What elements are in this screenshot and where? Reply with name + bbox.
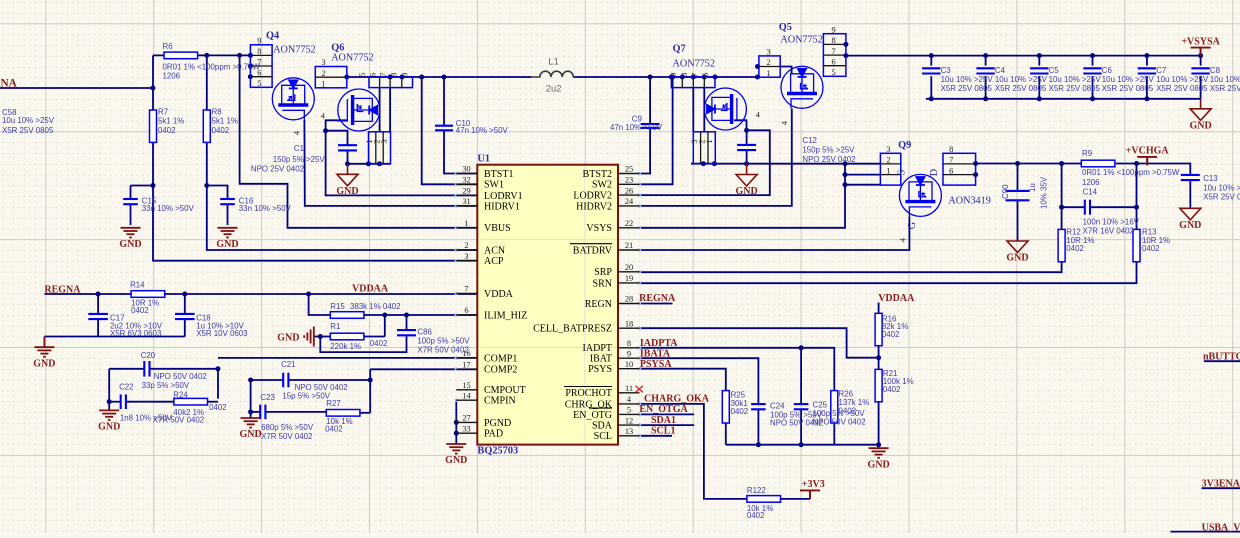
svg-text:GND: GND (1179, 220, 1201, 231)
svg-text:3: 3 (380, 139, 389, 143)
wire SDA1 stub pin 12 (640, 424, 695, 426)
wire gnd bars stub (314, 336, 321, 338)
svg-text:40k2 1%: 40k2 1% (173, 408, 204, 417)
wire C7 bottom stub (1146, 76, 1148, 99)
svg-text:5: 5 (358, 73, 367, 77)
pin 6 ILIM_HIZ (456, 314, 477, 316)
pin box Q5 pins 9-5 (823, 34, 846, 77)
svg-text:12: 12 (625, 416, 633, 425)
junction (1090, 96, 1095, 101)
svg-text:HIDRV2: HIDRV2 (576, 201, 612, 212)
svg-text:SW2: SW2 (592, 180, 612, 191)
svg-text:11: 11 (625, 384, 633, 393)
svg-text:GND: GND (119, 239, 141, 250)
svg-text:HIDRV1: HIDRV1 (484, 201, 520, 212)
wire C86 top (406, 315, 408, 330)
svg-text:S: S (897, 169, 908, 175)
svg-text:CMPIN: CMPIN (484, 396, 516, 407)
wire C12 top (746, 130, 748, 145)
wire R27 right stub (358, 412, 370, 414)
pin 20 SRP (618, 271, 640, 273)
svg-text:26: 26 (625, 186, 633, 195)
svg-text:REGNA: REGNA (44, 284, 81, 295)
pin box Q4 pins 9-5 (250, 45, 272, 88)
wire source rail Q6 (348, 163, 391, 165)
wire C17 C18 gnd rail (44, 336, 184, 338)
wire CELL_BATPRESZ pin 18 (640, 328, 879, 358)
wire REGNA to R14 (44, 293, 131, 295)
wire C15 to GND (130, 204, 132, 225)
wire C6 top stub (1092, 56, 1094, 66)
junction (248, 409, 253, 414)
wire R12 column (1061, 164, 1063, 230)
svg-text:7: 7 (379, 73, 388, 77)
junction (712, 161, 717, 166)
wire SRN pin 19 to R13 (640, 262, 1137, 284)
svg-text:8: 8 (257, 47, 261, 56)
transistor Q4 (272, 78, 314, 120)
wire PSYSA pin 10 to R25 (640, 369, 726, 391)
resistor R122 (747, 496, 781, 503)
svg-text:8: 8 (832, 36, 836, 45)
wire gnd stub right (878, 445, 880, 449)
junction (1015, 161, 1020, 166)
svg-text:C9: C9 (632, 114, 643, 123)
svg-text:X5R 25V 0805: X5R 25V 0805 (1156, 84, 1208, 93)
wire SW1 to pin 32 (422, 77, 478, 184)
svg-text:19: 19 (625, 274, 633, 283)
svg-text:BATDRV: BATDRV (573, 245, 613, 256)
svg-text:SW1: SW1 (484, 180, 504, 191)
junction (404, 313, 409, 318)
svg-text:2: 2 (767, 58, 771, 67)
pin 32 SW1 (456, 183, 477, 185)
wire SW1 rail to L1 (347, 76, 532, 78)
junction (799, 345, 804, 350)
svg-text:X5R 25V 0805: X5R 25V 0805 (1049, 84, 1101, 93)
svg-text:6: 6 (701, 73, 710, 77)
svg-text:3: 3 (767, 48, 771, 57)
wire R14 to VDDA pin 7 (165, 293, 478, 295)
junction (382, 313, 387, 318)
wire C3 bottom stub (930, 76, 932, 99)
svg-text:1: 1 (705, 139, 714, 143)
svg-text:150p 5% >25V: 150p 5% >25V (273, 155, 326, 164)
svg-text:100p 5% >50V: 100p 5% >50V (417, 336, 470, 345)
svg-text:R7: R7 (158, 108, 168, 117)
svg-text:X5R 10V 0603: X5R 10V 0603 (196, 329, 248, 338)
svg-text:SRN: SRN (593, 278, 612, 289)
wire R6 left / R7 top (152, 55, 154, 110)
wire R1 left stub (320, 336, 330, 338)
wire C20 right to R24 node (150, 369, 218, 399)
junction (345, 161, 350, 166)
capacitor C25 (794, 404, 809, 409)
junction (216, 366, 221, 371)
svg-text:1206: 1206 (1082, 178, 1100, 187)
svg-text:GND: GND (98, 422, 120, 433)
svg-text:R122: R122 (747, 486, 766, 495)
junction (744, 128, 749, 133)
junction (755, 64, 760, 69)
wire R8 bottom to ACN pin 2 (207, 142, 478, 250)
wire Q5 box link (780, 67, 791, 74)
wire VBUS to pin 1 (240, 55, 478, 227)
svg-text:C13: C13 (1203, 174, 1218, 183)
svg-text:R15: R15 (330, 302, 345, 311)
wire CMPIN PGND PAD gnd column (455, 400, 457, 444)
junction (248, 53, 253, 58)
wire R8 top (206, 55, 208, 110)
svg-text:ACN: ACN (484, 245, 505, 256)
pin 24 HIDRV2 (618, 205, 640, 207)
svg-text:33p 5% >50V: 33p 5% >50V (142, 381, 190, 390)
svg-text:AON7752: AON7752 (673, 58, 715, 69)
capacitor C23 (260, 405, 265, 420)
inductor L1 (532, 71, 575, 77)
svg-text:G: G (907, 221, 918, 229)
svg-text:150p 5% >25V: 150p 5% >25V (802, 146, 855, 155)
svg-text:BQ25703: BQ25703 (478, 446, 519, 457)
svg-text:X5R 25V 0805: X5R 25V 0805 (2, 126, 54, 135)
svg-text:NPO 50V 0402: NPO 50V 0402 (813, 418, 866, 427)
svg-text:10u 10% >25V: 10u 10% >25V (1156, 75, 1209, 84)
svg-text:6: 6 (464, 306, 468, 315)
pin box Q5 pins 3-1 (759, 56, 780, 77)
svg-text:27: 27 (462, 414, 470, 423)
junction (983, 53, 988, 58)
junction (843, 172, 848, 177)
junction (755, 75, 760, 80)
svg-text:ACP: ACP (484, 256, 504, 267)
svg-text:5k1 1%: 5k1 1% (212, 117, 238, 126)
pin box Q6 pins 5-9 (369, 77, 413, 88)
junction (318, 334, 323, 339)
wire COMP1 pin 16 (218, 357, 477, 359)
wire C23 gnd column (250, 380, 252, 412)
wire C5 bottom stub (1038, 76, 1040, 99)
wire C16 to GND (227, 204, 229, 225)
ground C22 (99, 410, 119, 420)
svg-text:VSYS: VSYS (586, 223, 612, 234)
svg-text:5: 5 (257, 79, 261, 88)
svg-text:IBATA: IBATA (640, 348, 671, 359)
junction (799, 442, 804, 447)
resistor R25 (722, 391, 729, 423)
wire R16 to R21 (878, 346, 880, 370)
svg-text:2: 2 (886, 156, 890, 165)
wire R6 left stub (153, 54, 164, 56)
power +VCHGA (1137, 157, 1157, 166)
ground C17 (34, 337, 54, 357)
svg-text:0402: 0402 (747, 511, 765, 520)
svg-text:2u2: 2u2 (546, 84, 562, 95)
resistor R13 (1133, 229, 1140, 261)
svg-text:1: 1 (886, 166, 890, 175)
svg-text:USBA_V: USBA_V (1202, 523, 1240, 533)
ground comp rail (869, 448, 889, 458)
wire C23 to R27 (265, 411, 326, 413)
junction (1144, 53, 1149, 58)
wire Q7 drain link a (692, 88, 694, 132)
svg-text:X7R 16V 0402: X7R 16V 0402 (1083, 226, 1134, 235)
svg-text:VDDAA: VDDAA (878, 293, 915, 304)
svg-text:PAD: PAD (484, 429, 503, 440)
wire C90 top (1017, 164, 1019, 191)
svg-text:C21: C21 (281, 360, 295, 369)
svg-text:REGNA: REGNA (639, 293, 676, 304)
svg-text:CELL_BATPRESZ: CELL_BATPRESZ (533, 324, 612, 335)
svg-text:C12: C12 (802, 136, 816, 145)
junction (248, 378, 253, 383)
pin 16 COMP1 (456, 357, 477, 359)
wire C21 right (288, 379, 370, 381)
wire EN_OTGA stub pin 5 (640, 413, 695, 415)
svg-text:CMPOUT: CMPOUT (484, 385, 526, 396)
wire C4 bottom stub (985, 76, 987, 99)
junction (701, 161, 706, 166)
pin 10 PSYS (618, 368, 640, 370)
junction (1134, 205, 1139, 210)
svg-text:6: 6 (949, 166, 953, 175)
wire Q7 drain link b (703, 88, 705, 132)
wire VDDAA branch to R15 (309, 294, 331, 315)
svg-text:R9: R9 (1082, 149, 1093, 158)
capacitor C15 (123, 199, 138, 204)
pin 23 SW2 (618, 183, 640, 185)
svg-text:9: 9 (627, 349, 631, 358)
wire BATDRV pin 21 to Q9 gate (640, 216, 910, 250)
svg-text:IADPTA: IADPTA (640, 338, 678, 349)
capacitor C6 (1083, 68, 1101, 73)
svg-text:IBAT: IBAT (590, 354, 612, 365)
wire C13 to GND (1189, 180, 1191, 208)
pin 30 BTST1 (456, 173, 477, 175)
capacitor C16 (220, 199, 235, 204)
svg-text:AON7752: AON7752 (273, 44, 315, 55)
wire CHARG_OKA pin 4 to R122 (640, 404, 747, 499)
svg-text:10u 10% >25V: 10u 10% >25V (1102, 75, 1155, 84)
svg-text:NA: NA (1, 78, 18, 90)
wire C17 bottom (97, 319, 99, 336)
svg-text:X5R 25V 0805: X5R 25V 0805 (1102, 84, 1154, 93)
svg-text:3V3ENAB: 3V3ENAB (1202, 479, 1240, 490)
wire VSYS pin 22 to Q9 (640, 164, 846, 228)
svg-text:X7R 50V 0402: X7R 50V 0402 (261, 432, 312, 441)
svg-text:6: 6 (369, 73, 378, 77)
capacitor C12 (737, 145, 756, 150)
capacitor C4 (976, 68, 994, 73)
junction (248, 64, 253, 69)
wire R13 column (1136, 164, 1138, 230)
pin 33 PAD (456, 432, 477, 434)
wire C22 to R24 (126, 401, 174, 403)
svg-text:0402: 0402 (731, 407, 749, 416)
wire 3V3ENAB stub (1202, 487, 1240, 489)
svg-text:28: 28 (625, 295, 633, 304)
wire Q6 drain link a (379, 88, 381, 132)
svg-text:PSYSA: PSYSA (640, 359, 672, 370)
junction (377, 161, 382, 166)
svg-text:NPO 25V 0402: NPO 25V 0402 (802, 155, 855, 164)
svg-text:0402: 0402 (1142, 244, 1160, 253)
junction (648, 75, 653, 80)
wire nBUTTON stub (1204, 360, 1240, 362)
capacitor C5 (1030, 68, 1048, 73)
wire source rail to Q9 (691, 163, 880, 165)
svg-text:9: 9 (257, 37, 261, 46)
junction (669, 75, 674, 80)
wire C90 to GND (1017, 201, 1019, 241)
svg-text:C1: C1 (294, 144, 304, 153)
wire C21 left (251, 379, 284, 381)
pin 7 VDDA (456, 293, 477, 295)
junction (843, 42, 848, 47)
svg-text:6: 6 (832, 57, 836, 66)
wire C10 to BTST1 pin 30 (444, 131, 477, 174)
wire C1 bottom (347, 150, 349, 163)
resistor R24 (174, 398, 208, 405)
junction (756, 442, 761, 447)
junction (843, 161, 848, 166)
capacitor C24 (751, 404, 766, 409)
junction (107, 399, 112, 404)
wire +VCHGA stub (1146, 158, 1148, 164)
wire C9 top (649, 77, 651, 124)
pin 8 IADPT (618, 347, 640, 349)
junction (400, 75, 405, 80)
transistor Q9 (899, 174, 941, 216)
svg-text:LODRV1: LODRV1 (484, 191, 523, 202)
resistor R9 (1081, 160, 1115, 167)
svg-text:C23: C23 (260, 393, 275, 402)
svg-text:+3V3: +3V3 (802, 479, 825, 490)
svg-text:C24: C24 (770, 402, 785, 411)
wire Q4 gate to HIDRV1 pin 31 (304, 120, 477, 206)
svg-text:10% 35V: 10% 35V (1040, 176, 1049, 209)
svg-text:3: 3 (321, 58, 325, 67)
wire C9 to BTST2 pin 25 (640, 128, 651, 174)
svg-text:5k1 1%: 5k1 1% (158, 117, 184, 126)
junction (237, 53, 242, 58)
resistor R14 (131, 291, 165, 298)
capacitor C22 (121, 394, 126, 409)
svg-text:8: 8 (627, 339, 631, 348)
svg-text:Q9: Q9 (898, 140, 911, 151)
resistor R8 (203, 110, 210, 142)
svg-text:X5R 25V 0805: X5R 25V 0805 (1210, 84, 1240, 93)
pin hotspot markers (455, 172, 642, 438)
pin 21 BATDRV (618, 249, 640, 251)
wire Q9 drain to R9 (976, 163, 1082, 165)
op-amp U1 BQ25703 (IC body) (477, 165, 618, 445)
junction (323, 128, 328, 133)
svg-text:15: 15 (462, 381, 470, 390)
pin 12 SDA (618, 424, 640, 426)
junction (1059, 161, 1064, 166)
junction (182, 292, 187, 297)
svg-text:+VCHGA: +VCHGA (1126, 146, 1170, 157)
wire C1 top branch (326, 131, 348, 145)
svg-text:R1: R1 (330, 322, 340, 331)
wire R9 to C13 (1116, 164, 1191, 175)
ground C90 (1007, 241, 1028, 253)
svg-text:PSYS: PSYS (588, 364, 612, 375)
transistor Q5 (781, 66, 823, 108)
svg-text:U1: U1 (478, 154, 491, 165)
junction (1037, 96, 1042, 101)
wire Q6 drain link b (389, 88, 391, 132)
svg-text:24: 24 (625, 197, 634, 206)
wire C20 left (109, 368, 144, 370)
wire C15 tap (131, 185, 154, 187)
svg-text:+VSYSA: +VSYSA (1181, 36, 1220, 47)
wire COMP2 down (369, 369, 371, 413)
wire USBA_V stub (1170, 531, 1240, 533)
svg-text:0402: 0402 (1066, 244, 1084, 253)
junction (368, 378, 373, 383)
svg-text:NPO 50V 0402: NPO 50V 0402 (154, 372, 207, 381)
svg-text:10u 10% >25V: 10u 10% >25V (941, 75, 994, 84)
pin 26 LODRV2 (618, 194, 640, 196)
capacitor C90 (1006, 191, 1030, 200)
wire C12 bottom (746, 150, 748, 164)
svg-text:22: 22 (625, 219, 633, 228)
wire C10 top (443, 77, 445, 125)
pin 2 ACN (456, 249, 477, 251)
svg-text:C25: C25 (813, 401, 828, 410)
wire SW2 to pin 23 (640, 77, 673, 184)
wire IBATA pin 9 to C24 (640, 358, 759, 404)
pin 22 VSYS (618, 227, 640, 229)
svg-text:VBUS: VBUS (484, 223, 511, 234)
transistor Q7 (704, 88, 746, 130)
wire C24 bottom (757, 409, 759, 444)
resistor R12 (1058, 229, 1065, 261)
svg-text:0402: 0402 (131, 306, 149, 315)
pin 9 IBAT (618, 357, 640, 359)
pin box Q6 pins 1-3 lower (369, 132, 391, 164)
svg-text:383k 1% 0402: 383k 1% 0402 (350, 302, 400, 311)
svg-text:C5: C5 (1049, 66, 1060, 75)
svg-text:15p 5% >50V: 15p 5% >50V (282, 392, 330, 401)
ground PGND (446, 444, 466, 454)
junction (344, 75, 349, 80)
svg-text:10u 10% >25V: 10u 10% >25V (2, 116, 55, 125)
junction (1144, 96, 1149, 101)
svg-text:VDDAA: VDDAA (352, 283, 389, 294)
svg-text:9: 9 (401, 73, 410, 77)
pin 1 VBUS (456, 227, 477, 229)
svg-text:18: 18 (625, 319, 633, 328)
svg-text:COMP1: COMP1 (484, 353, 517, 364)
wire R6 right to Q4 box (196, 54, 250, 56)
svg-text:3: 3 (886, 145, 890, 154)
svg-text:C86: C86 (417, 328, 432, 337)
svg-text:10: 10 (625, 360, 633, 369)
svg-text:PGND: PGND (484, 418, 511, 429)
svg-text:X7R 50V 0402: X7R 50V 0402 (153, 416, 204, 425)
svg-text:10u 10% >25V: 10u 10% >25V (1049, 75, 1102, 84)
ground Q6 area (337, 164, 358, 186)
wire C8 top stub (1200, 56, 1202, 66)
wire COMP2 pin 17 (370, 368, 477, 370)
wire C22 gnd column (108, 369, 110, 402)
pin 15 CMPOUT (456, 389, 477, 391)
wire C25 column (800, 348, 802, 404)
svg-text:25: 25 (625, 165, 633, 174)
svg-text:20: 20 (625, 263, 633, 272)
